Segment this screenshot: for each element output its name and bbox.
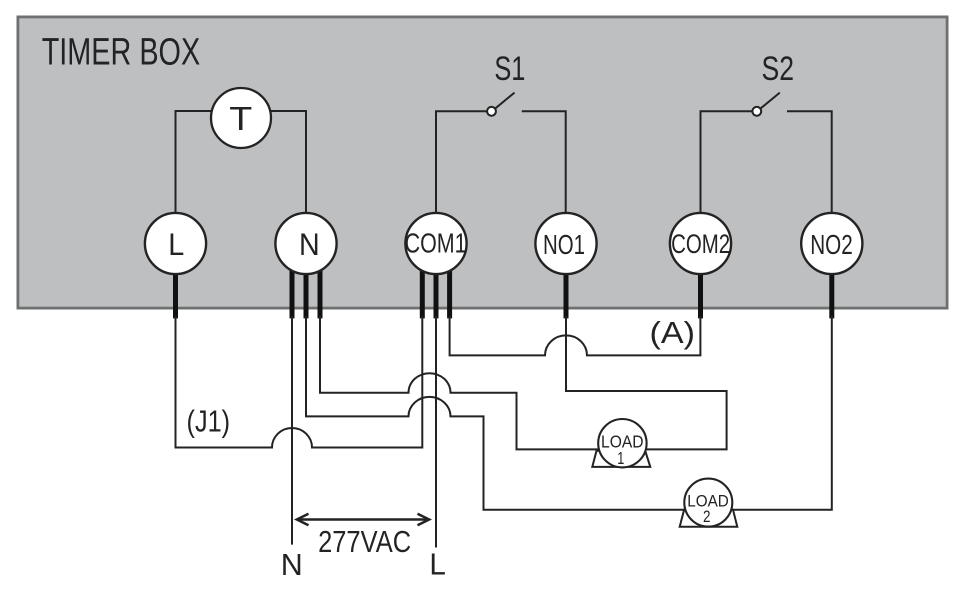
svg-text:L: L [429, 547, 446, 582]
terminal L [145, 213, 206, 274]
svg-text:T: T [229, 100, 252, 137]
terminal N [275, 213, 336, 274]
terminal NO1 [535, 213, 596, 274]
wire N to LOAD1 to NO1 loop [320, 316, 727, 449]
svg-text:COM2: COM2 [671, 229, 730, 259]
svg-text:(A): (A) [650, 315, 696, 350]
lead NO1 terminal [564, 268, 569, 318]
wire S1 to NO1 [522, 111, 566, 213]
leads N terminal [292, 268, 320, 318]
leads COM1 terminal [422, 268, 449, 318]
wire COM2 to S2 [701, 111, 753, 213]
switch S1 [487, 93, 514, 116]
svg-text:COM1: COM1 [405, 228, 467, 259]
wire S2 to NO2 [787, 111, 832, 213]
wire jumper J1 from L to COM1 [176, 316, 423, 448]
terminal NO2 [801, 213, 862, 274]
svg-text:L: L [168, 226, 184, 262]
wire COM1 to S1 [436, 111, 487, 213]
dimension arrow 277VAC [297, 514, 429, 526]
svg-text:1: 1 [617, 448, 624, 468]
wire N to LOAD2 to NO2 loop [306, 316, 832, 510]
svg-text:S2: S2 [762, 50, 795, 88]
timer T [211, 88, 271, 148]
timer box enclosure [18, 17, 947, 308]
switch S2 [752, 93, 779, 116]
terminal COM2 [670, 213, 731, 274]
wire L to T [176, 111, 213, 213]
svg-text:NO2: NO2 [810, 229, 853, 260]
lead COM2 terminal [698, 268, 703, 318]
svg-text:NO1: NO1 [543, 229, 585, 260]
svg-text:TIMER BOX: TIMER BOX [42, 32, 201, 74]
wire N to T [270, 111, 306, 213]
load LOAD1 [592, 419, 650, 468]
svg-text:N: N [281, 547, 303, 582]
terminal COM1 [405, 213, 467, 274]
lead L terminal [173, 268, 178, 318]
svg-text:N: N [299, 226, 320, 262]
svg-text:277VAC: 277VAC [318, 524, 411, 559]
wire jumper A from COM1 to COM2 [450, 316, 701, 355]
svg-text:(J1): (J1) [187, 405, 231, 439]
wire N supply line [291, 316, 293, 545]
svg-text:2: 2 [703, 507, 711, 526]
wire L supply line [435, 316, 437, 548]
lead NO2 terminal [829, 268, 834, 318]
load LOAD2 [680, 479, 738, 527]
svg-text:S1: S1 [494, 50, 525, 88]
